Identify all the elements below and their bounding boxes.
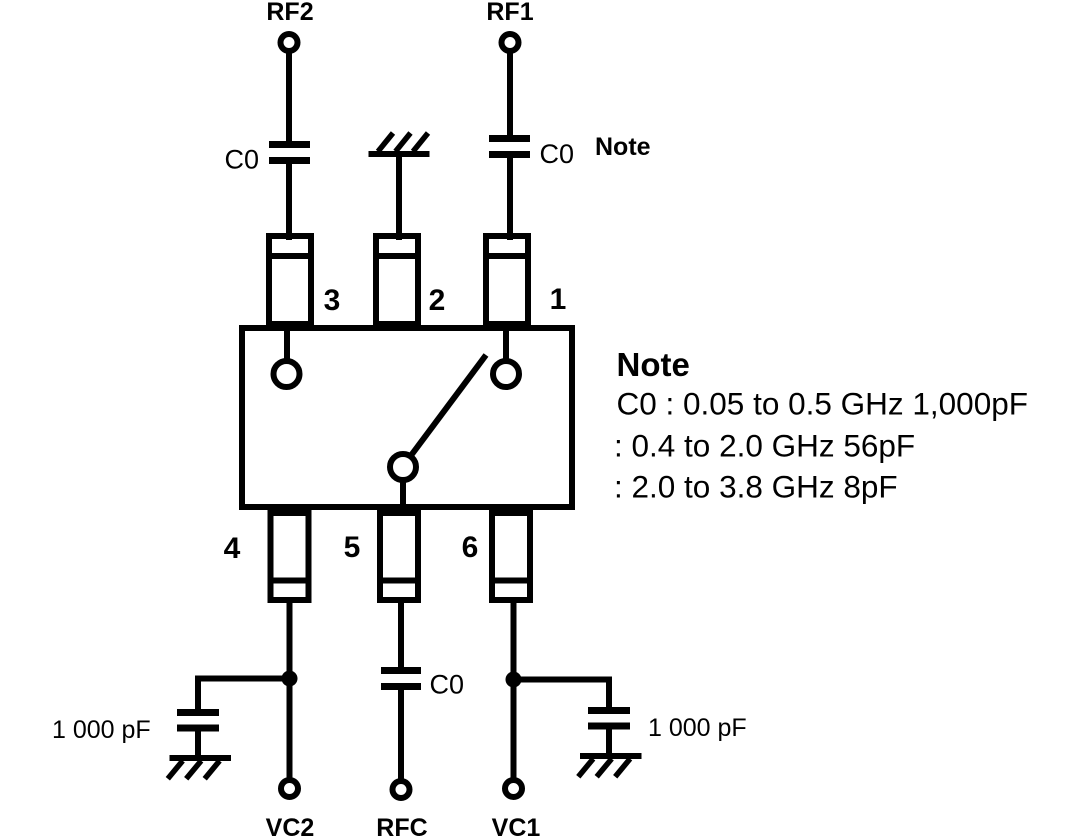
svg-text:C0: C0 xyxy=(430,670,465,700)
wire pin 1 stub inside package xyxy=(503,328,509,361)
pin 2 (package lead) xyxy=(373,236,421,324)
svg-text:2: 2 xyxy=(429,284,446,317)
wire pin 3 stub inside package xyxy=(284,328,290,361)
svg-text:VC2: VC2 xyxy=(266,814,315,839)
ground (left) xyxy=(168,758,231,779)
wire C0 to pin 1 xyxy=(507,155,513,241)
wire C0 to pin 3 xyxy=(286,161,292,241)
terminal VC2 xyxy=(281,780,298,797)
svg-text:4: 4 xyxy=(224,532,241,565)
wire ground to pin 2 xyxy=(396,157,402,240)
svg-text:RFC: RFC xyxy=(376,814,427,839)
wire pin 4 to VC2 xyxy=(287,600,293,780)
pin 1 (package lead) xyxy=(483,236,531,324)
svg-text:1: 1 xyxy=(550,283,567,316)
svg-text:6: 6 xyxy=(462,531,479,564)
wire cap to ground (left) xyxy=(195,728,201,755)
switch common pole contact xyxy=(390,454,416,480)
svg-text:RF2: RF2 xyxy=(266,0,313,26)
capacitor 1000pF (right) xyxy=(588,711,630,727)
terminal RF2 xyxy=(281,34,298,51)
switch contact (pin 1 side) xyxy=(493,361,519,387)
svg-text:Note: Note xyxy=(617,346,690,383)
svg-text:5: 5 xyxy=(344,531,361,564)
pin 4 (package lead) xyxy=(268,513,312,600)
svg-text:1 000 pF: 1 000 pF xyxy=(648,714,747,742)
wire pin 6 to VC1 xyxy=(511,600,517,780)
wire pin 5 to C0 xyxy=(398,600,404,670)
switch arm xyxy=(410,355,487,458)
wire cap to ground (right) xyxy=(606,726,612,753)
terminal VC1 xyxy=(505,780,522,797)
terminal RFC xyxy=(393,781,410,798)
capacitor C0 (RF1 branch) xyxy=(489,139,530,155)
junction (VC2 branch) xyxy=(282,671,298,687)
wire RF2 to C0 xyxy=(286,51,292,145)
capacitor 1000pF (left) xyxy=(177,713,219,729)
capacitor C0 (RF2 branch) xyxy=(269,145,310,161)
svg-text:C0 : 0.05 to 0.5 GHz 1,000pF: C0 : 0.05 to 0.5 GHz 1,000pF xyxy=(617,386,1028,422)
IC package body (SPDT switch) xyxy=(242,328,572,507)
svg-text:1 000 pF: 1 000 pF xyxy=(52,716,151,744)
junction (VC1 branch) xyxy=(506,672,522,688)
wire junction to bypass cap (right) xyxy=(514,680,610,709)
svg-text:Note: Note xyxy=(595,133,651,161)
svg-text:VC1: VC1 xyxy=(492,814,541,839)
svg-text:: 2.0 to 3.8 GHz 8pF: : 2.0 to 3.8 GHz 8pF xyxy=(614,469,898,505)
svg-text:: 0.4 to 2.0 GHz 56pF: : 0.4 to 2.0 GHz 56pF xyxy=(614,428,915,464)
wire C0 to RFC xyxy=(398,687,404,782)
svg-text:RF1: RF1 xyxy=(486,0,533,26)
pin 5 (package lead) xyxy=(377,513,421,600)
svg-text:C0: C0 xyxy=(540,139,575,169)
wire junction to bypass cap (left) xyxy=(198,679,290,711)
pin 6 (package lead) xyxy=(489,513,533,600)
wire RF1 to C0 xyxy=(507,51,513,139)
wire common pole to pin 5 xyxy=(400,480,406,510)
svg-text:C0: C0 xyxy=(224,145,259,175)
pin 3 (package lead) xyxy=(266,236,314,324)
capacitor C0 (RFC branch) xyxy=(381,671,421,687)
svg-text:3: 3 xyxy=(324,284,341,317)
switch contact (pin 3 side) xyxy=(274,361,300,387)
terminal RF1 xyxy=(502,34,519,51)
ground (right) xyxy=(578,756,641,777)
ground (top, pin 2) xyxy=(369,133,430,154)
